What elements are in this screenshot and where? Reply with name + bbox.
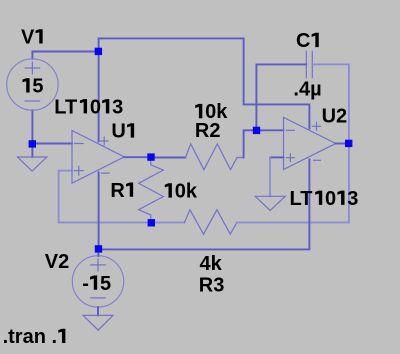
- wire U2 noninverting input to ground: [270, 156, 284, 158]
- svg-text:R2: R2: [195, 120, 221, 142]
- resistor R3: [184, 210, 237, 234]
- svg-text:3: 3: [112, 96, 123, 118]
- value 10k R2: [195, 104, 202, 118]
- wire R2 left lead: [151, 157, 186, 159]
- wire U2 output: [336, 143, 349, 145]
- voltage source V2: [72, 256, 123, 307]
- ground below V2: [83, 315, 113, 330]
- svg-text:4k: 4k: [200, 253, 223, 275]
- node B junction: [29, 140, 36, 147]
- svg-text:5: 5: [32, 76, 43, 98]
- svg-text:LT: LT: [54, 96, 77, 118]
- node D junction R1 bottom: [148, 219, 155, 226]
- wire C1 right branch to U2 output node: [312, 64, 349, 143]
- wire U1 noninverting input feedback: [59, 171, 72, 223]
- svg-text:LT: LT: [290, 188, 313, 210]
- svg-text:U2: U2: [322, 105, 348, 127]
- svg-text:-: -: [82, 273, 89, 295]
- op-amp U2: [284, 117, 336, 169]
- svg-text:3: 3: [347, 188, 358, 210]
- node E junction U2 inverting input: [253, 127, 260, 134]
- voltage source V1: [7, 59, 58, 110]
- wire U1 output: [124, 156, 151, 158]
- node C junction U1 output: [147, 153, 154, 160]
- wire V2 stub top: [97, 253, 99, 256]
- wire C1 left branch: [256, 64, 306, 130]
- svg-text:C: C: [296, 30, 310, 52]
- wire bottom feedback rail: [59, 222, 185, 224]
- svg-text:0k: 0k: [175, 181, 198, 203]
- wire node B to U1 inverting input: [32, 143, 72, 145]
- wire R3 to U2 output node: [237, 144, 349, 223]
- svg-text:.tran .: .tran .: [3, 326, 57, 348]
- svg-text:U: U: [111, 121, 125, 143]
- op-amp U1: [72, 131, 124, 184]
- resistor R1: [139, 158, 164, 223]
- svg-text:.4µ: .4µ: [293, 79, 321, 101]
- ground below U2: [255, 196, 285, 210]
- capacitor C1: [306, 51, 312, 77]
- wire U2 V- pin to V- rail: [99, 159, 310, 249]
- wire top rail node A to U2 V+ pin: [99, 38, 310, 128]
- svg-text:V2: V2: [45, 251, 69, 273]
- wire R2 to U2 inverting input: [244, 130, 284, 157]
- value 10k R1: [165, 183, 172, 197]
- svg-text:V: V: [21, 27, 35, 49]
- ground below V1: [17, 157, 47, 171]
- value 15: [23, 78, 30, 92]
- node F junction U2 output: [345, 140, 352, 147]
- wire U1 V- pin down to V2 node: [98, 172, 100, 249]
- wire V1 top to node A: [32, 52, 98, 59]
- node A junction: [95, 48, 102, 55]
- svg-text:5: 5: [100, 273, 111, 295]
- node G junction V2 plus: [95, 245, 102, 252]
- resistor R2: [186, 144, 244, 170]
- wire V1 bottom to ground: [31, 110, 33, 157]
- svg-text:R: R: [110, 180, 125, 202]
- svg-text:0: 0: [90, 96, 101, 118]
- svg-text:R3: R3: [199, 275, 225, 297]
- svg-text:0: 0: [325, 188, 336, 210]
- wire V2 stub bottom: [97, 307, 99, 315]
- wire U1 V+ pin: [98, 52, 100, 142]
